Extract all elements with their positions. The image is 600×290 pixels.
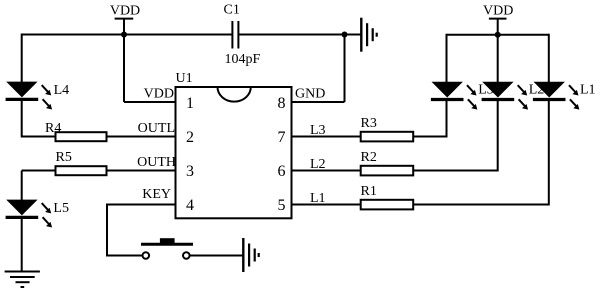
- svg-text:OUTL: OUTL: [138, 121, 175, 136]
- svg-text:8: 8: [278, 95, 286, 112]
- svg-text:2: 2: [186, 129, 194, 146]
- svg-text:L5: L5: [53, 201, 69, 216]
- svg-text:R5: R5: [56, 150, 72, 165]
- svg-text:L3: L3: [310, 123, 326, 138]
- svg-text:OUTH: OUTH: [137, 155, 176, 170]
- svg-text:3: 3: [186, 163, 194, 180]
- svg-text:R1: R1: [361, 184, 377, 199]
- svg-text:VDD: VDD: [483, 4, 513, 19]
- svg-text:104pF: 104pF: [225, 52, 261, 67]
- svg-text:6: 6: [278, 163, 286, 180]
- svg-text:1: 1: [186, 95, 194, 112]
- svg-text:R4: R4: [45, 121, 61, 136]
- svg-text:C1: C1: [224, 2, 240, 17]
- svg-text:VDD: VDD: [110, 4, 140, 19]
- svg-text:L1: L1: [310, 191, 326, 206]
- svg-text:L2: L2: [310, 157, 326, 172]
- svg-text:7: 7: [278, 129, 286, 146]
- svg-text:KEY: KEY: [142, 187, 171, 202]
- svg-text:L1: L1: [580, 83, 596, 98]
- svg-text:L4: L4: [54, 83, 70, 98]
- svg-text:GND: GND: [295, 87, 325, 102]
- svg-text:5: 5: [278, 197, 286, 214]
- svg-text:R2: R2: [361, 150, 377, 165]
- svg-text:U1: U1: [176, 71, 193, 86]
- svg-text:VDD: VDD: [144, 87, 174, 102]
- svg-text:R3: R3: [361, 116, 377, 131]
- svg-text:4: 4: [186, 197, 194, 214]
